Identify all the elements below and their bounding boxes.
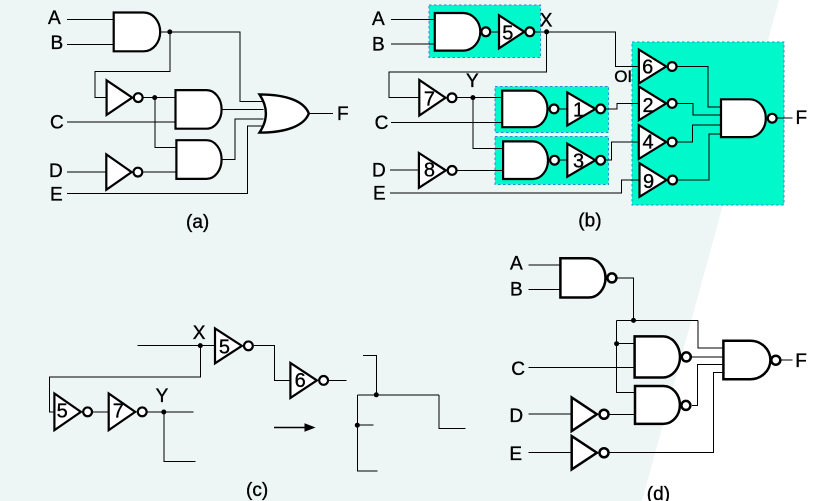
wire NOT5 to NOT6 (c) (254, 346, 291, 381)
wire NAND1 out down (d) (618, 278, 634, 321)
wire B to NAND1 (b) (391, 43, 436, 45)
wire simplified Y stub (c) (357, 424, 373, 426)
wire X down to NOT7 (b) (389, 32, 547, 98)
wire NOT1 out to NOT2 (b) (606, 103, 639, 109)
wire NOT5b to NOT7 (c) (93, 411, 109, 413)
AND gate 3 (a) (176, 140, 221, 179)
wire branch to AND3 (a) (155, 98, 177, 148)
node simplified node X (c) (374, 392, 379, 397)
wire NAND2 out to NAND4 (d) (692, 356, 724, 358)
node junction J2 (d) (614, 341, 619, 346)
wire cross wire (d) (617, 319, 698, 321)
wire simplified right branch (c) (439, 395, 465, 429)
node node X (c) (198, 343, 203, 348)
inverter 8 (b) (419, 153, 457, 188)
NAND gate 4 output (b) (721, 99, 777, 137)
svg-text:D: D (372, 160, 386, 181)
wire Y down branch (c) (164, 412, 196, 462)
NAND gate AB (b) (435, 13, 490, 51)
wire NAND3 to NOT3 (b) (560, 159, 567, 161)
wire C to NAND2 (b) (391, 121, 502, 123)
svg-text:A: A (510, 254, 523, 275)
highlight box output group (b) (632, 42, 784, 205)
wire A to AND1 (a) (67, 19, 115, 21)
svg-text:F: F (796, 108, 808, 129)
node simplified node Y (c) (355, 423, 360, 428)
wire NAND2 to NOT1 (b) (559, 108, 567, 110)
svg-text:(b): (b) (578, 211, 601, 232)
wire D to NOT2 (a) (67, 171, 107, 173)
svg-text:7: 7 (113, 401, 124, 423)
wire NOT6 out to NAND4 (b) (677, 67, 721, 108)
wire NOT7 out to NAND2 (b) (457, 97, 502, 99)
node node Y (c) (161, 410, 166, 415)
arrow (c) (274, 423, 316, 432)
svg-text:4: 4 (643, 132, 654, 154)
wire A to NAND1 (d) (529, 264, 562, 266)
wire NOT7 out through Y (c) (148, 411, 194, 413)
NAND gate 3 (d) (635, 386, 690, 424)
svg-text:E: E (373, 184, 386, 205)
inverter 7 (c) (109, 394, 147, 431)
svg-text:7: 7 (424, 89, 435, 111)
wire D to NOT8 (b) (390, 169, 419, 171)
NAND gate 4 output (d) (723, 341, 780, 379)
svg-text:D: D (509, 406, 523, 427)
highlight box NAND+NOT3 (b) (495, 137, 609, 185)
svg-text:1: 1 (573, 99, 584, 121)
svg-text:2: 2 (643, 95, 654, 117)
svg-text:(c): (c) (246, 480, 268, 501)
svg-text:6: 6 (295, 370, 306, 392)
wire AND2 out to OR (a) (222, 108, 264, 110)
inverter 2 (b) (639, 87, 677, 121)
inverter E (d) (572, 436, 609, 469)
svg-text:5: 5 (57, 401, 68, 423)
svg-text:X: X (540, 10, 553, 31)
svg-text:D: D (49, 161, 63, 182)
node junction AND1 output (a) (167, 29, 172, 34)
wire C to AND2 (a) (67, 121, 177, 123)
svg-text:A: A (372, 9, 385, 30)
NAND gate 2 (b) (502, 91, 558, 128)
wire C to NAND2 (d) (529, 367, 636, 369)
inverter NOT1 (a) (107, 80, 143, 115)
inverter 5 top (c) (215, 328, 253, 363)
wire B to AND1 (a) (67, 43, 115, 45)
wire NOT2 out to AND3 (a) (144, 171, 177, 173)
inverter 6 (c) (290, 363, 328, 398)
NAND gate 3 (b) (503, 141, 559, 179)
node junction after NOT1 (a) (152, 95, 157, 100)
wire NOT2 out to NAND4 (b) (677, 103, 721, 115)
svg-text:A: A (48, 8, 61, 29)
inverter 5 bottom (c) (54, 394, 92, 431)
svg-text:B: B (51, 33, 64, 54)
svg-text:E: E (509, 444, 522, 465)
NAND gate 2 (d) (635, 336, 691, 377)
wire X down to NOT5b (c) (50, 346, 201, 412)
svg-text:6: 6 (642, 57, 653, 79)
wire E to OR (a) (67, 126, 262, 193)
wire NOTE out to NAND4 (d) (609, 373, 724, 453)
node junction J1 (d) (631, 318, 636, 323)
svg-text:C: C (511, 359, 525, 380)
inverter 6 (b) (639, 50, 677, 84)
svg-text:9: 9 (643, 171, 654, 193)
highlight box NAND+NOT1 (b) (495, 87, 609, 133)
svg-text:3: 3 (573, 151, 584, 173)
inverter 9 (b) (640, 163, 677, 197)
inverter 3 (b) (567, 144, 605, 177)
svg-text:C: C (50, 112, 64, 133)
inverter D (d) (572, 398, 609, 432)
inverter 1 (b) (567, 92, 605, 125)
wire NOT4 out to NAND4 (b) (677, 125, 721, 142)
NAND gate AB (d) (560, 258, 616, 297)
wire E to NOT9 (b) (390, 180, 640, 193)
svg-text:C: C (375, 113, 389, 134)
wire NOT1 out to AND2 (a) (144, 97, 177, 99)
svg-text:(a): (a) (186, 212, 209, 233)
wire NOT3 out to NOT4 (b) (606, 142, 639, 160)
wire NAND3 out to NAND4 (d) (692, 365, 725, 406)
wire J2 down to NAND3 (d) (617, 344, 636, 393)
wire NOT8 out to NAND3 (b) (458, 169, 504, 171)
wire NAND4 out to F (d) (781, 359, 793, 361)
wire AB to NAND4 (d) (698, 320, 725, 348)
wire NOT6 out (c) (329, 379, 347, 381)
svg-text:E: E (50, 184, 63, 205)
wire NOT9 out to NAND4 (b) (678, 134, 721, 180)
wire AND3 out to OR (a) (222, 119, 264, 160)
node node Y (b) (470, 95, 475, 100)
inverter 5 (b) (499, 15, 534, 48)
inverter 7 (b) (419, 80, 456, 116)
svg-text:5: 5 (219, 337, 230, 359)
svg-text:8: 8 (424, 160, 435, 182)
svg-text:Y: Y (156, 386, 169, 407)
inverter NOT2 (a) (106, 154, 142, 189)
wire OR out to F (a) (309, 113, 333, 115)
wire simplified main wire (c) (357, 394, 439, 396)
svg-text:F: F (337, 104, 349, 125)
AND gate 2 (a) (176, 90, 222, 129)
wire AND1 out down to NOT1 (a) (95, 32, 170, 98)
svg-text:B: B (510, 280, 523, 301)
wire A to NAND1 (b) (391, 19, 436, 21)
node node X (b) (544, 29, 549, 34)
wire NOTD out to NAND3 (d) (609, 413, 636, 415)
wire X to NOT6 (b) (535, 32, 639, 67)
wire simplified X stub (c) (363, 355, 376, 394)
wire NAND1 to NOT5 (b) (491, 31, 499, 33)
wire NAND4 out to F (b) (778, 117, 793, 119)
svg-text:X: X (193, 323, 206, 344)
wire down to J2 (d) (616, 320, 618, 343)
svg-text:B: B (372, 35, 385, 56)
wire J2 to NAND2 (d) (617, 343, 636, 345)
highlight box NAND+NOT5 (b) (429, 5, 541, 58)
OR gate (a) (260, 94, 309, 132)
svg-text:Y: Y (466, 71, 479, 92)
svg-text:F: F (795, 351, 807, 372)
svg-text:OI: OI (614, 67, 632, 86)
wire B to NAND1 (d) (529, 289, 562, 291)
wire input to X (c) (137, 345, 215, 347)
svg-text:(d): (d) (647, 484, 670, 501)
wire simplified left vertical (c) (357, 395, 377, 471)
wire E to NOTE (d) (529, 452, 572, 454)
svg-text:5: 5 (502, 22, 513, 44)
wire AND1 out to OR (a) (160, 32, 263, 102)
wire D to NOTD (d) (529, 413, 572, 415)
inverter 4 (b) (639, 125, 677, 159)
AND gate 1 (a) (114, 13, 160, 52)
wire Y down to NAND3 (b) (473, 98, 503, 149)
